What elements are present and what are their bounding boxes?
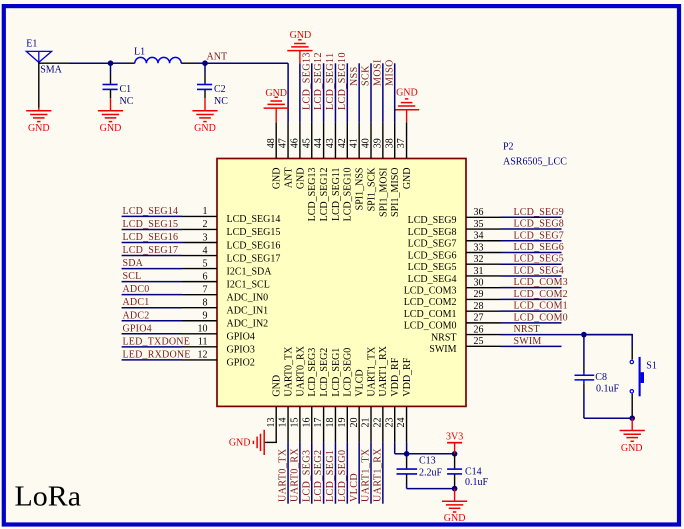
svg-text:9: 9 bbox=[203, 311, 208, 322]
svg-text:GND: GND bbox=[229, 438, 251, 449]
svg-text:UART0_RX: UART0_RX bbox=[290, 448, 301, 502]
svg-text:3: 3 bbox=[203, 232, 208, 243]
svg-text:C2: C2 bbox=[214, 84, 226, 95]
pin 25 SWIM right bbox=[466, 345, 501, 347]
svg-text:LCD_SEG9: LCD_SEG9 bbox=[408, 215, 457, 226]
svg-text:1: 1 bbox=[203, 206, 208, 217]
svg-text:LCD_SEG13: LCD_SEG13 bbox=[301, 52, 312, 110]
svg-text:3V3: 3V3 bbox=[446, 432, 463, 443]
pin 7 ADC0 left bbox=[122, 294, 182, 296]
pin 20 VLCD bottom bbox=[358, 406, 360, 442]
svg-text:SDA: SDA bbox=[123, 258, 144, 269]
svg-text:NRST: NRST bbox=[431, 332, 457, 343]
ground C2 bbox=[192, 110, 217, 112]
svg-text:20: 20 bbox=[349, 418, 360, 428]
svg-text:15: 15 bbox=[290, 418, 301, 428]
svg-text:GPIO4: GPIO4 bbox=[227, 332, 255, 343]
node junction S1 ground bbox=[629, 415, 635, 421]
svg-text:LCD_SEG6: LCD_SEG6 bbox=[408, 250, 457, 261]
pin 8 ADC1 left bbox=[122, 307, 182, 309]
svg-text:LoRa: LoRa bbox=[15, 481, 82, 513]
svg-text:I2C1_SCL: I2C1_SCL bbox=[227, 279, 270, 290]
svg-text:4: 4 bbox=[203, 245, 208, 256]
svg-text:LCD_COM1: LCD_COM1 bbox=[514, 301, 568, 312]
pin 34 LCD_SEG7 right bbox=[466, 240, 501, 242]
svg-text:32: 32 bbox=[474, 254, 484, 265]
svg-text:LCD_SEG14: LCD_SEG14 bbox=[227, 214, 281, 225]
svg-text:33: 33 bbox=[474, 242, 484, 253]
svg-text:14: 14 bbox=[278, 418, 289, 428]
wire S1 to ground bbox=[631, 394, 633, 419]
node junction 3V3 bbox=[452, 451, 458, 457]
svg-text:LCD_COM2: LCD_COM2 bbox=[514, 289, 568, 300]
svg-text:NC: NC bbox=[120, 96, 134, 107]
pin 6 SCL left bbox=[122, 281, 182, 283]
svg-text:GND: GND bbox=[396, 88, 418, 99]
svg-text:ADC_IN0: ADC_IN0 bbox=[227, 292, 269, 303]
svg-text:GND: GND bbox=[444, 513, 466, 524]
svg-text:LCD_SEG16: LCD_SEG16 bbox=[123, 232, 179, 243]
pin 16 LCD_SEG3 bottom bbox=[311, 406, 313, 442]
capacitor C1 (NC) bbox=[110, 63, 112, 73]
svg-text:37: 37 bbox=[396, 138, 407, 148]
wire antenna to C1 node bbox=[39, 62, 69, 64]
pin 33 LCD_SEG6 right bbox=[466, 251, 501, 253]
svg-text:SPI1_MOSI: SPI1_MOSI bbox=[378, 168, 389, 217]
pin 39 SPI1_MOSI top bbox=[382, 123, 384, 159]
svg-text:LCD_SEG17: LCD_SEG17 bbox=[123, 245, 179, 256]
node junction C13 top bbox=[404, 451, 410, 457]
pin 4 LCD_SEG17 left bbox=[122, 255, 182, 257]
svg-text:LCD_SEG5: LCD_SEG5 bbox=[408, 262, 457, 273]
svg-text:28: 28 bbox=[474, 301, 484, 312]
svg-text:17: 17 bbox=[313, 418, 324, 428]
svg-text:UART0_RX: UART0_RX bbox=[295, 345, 306, 396]
svg-text:LCD_SEG7: LCD_SEG7 bbox=[408, 239, 457, 250]
pin 17 LCD_SEG2 bottom bbox=[323, 406, 325, 442]
svg-text:SPI1_SCK: SPI1_SCK bbox=[366, 167, 377, 212]
svg-text:16: 16 bbox=[301, 418, 312, 428]
pin 40 SPI1_SCK top bbox=[370, 123, 372, 159]
svg-text:SWIM: SWIM bbox=[429, 344, 456, 355]
svg-text:44: 44 bbox=[313, 138, 324, 148]
wire ANT node to pin 47 bbox=[205, 62, 288, 64]
svg-text:ADC0: ADC0 bbox=[123, 284, 150, 295]
svg-text:ANT: ANT bbox=[207, 52, 228, 63]
svg-text:26: 26 bbox=[474, 324, 484, 335]
svg-text:LCD_SEG8: LCD_SEG8 bbox=[408, 227, 457, 238]
svg-text:LCD_SEG12: LCD_SEG12 bbox=[313, 52, 324, 110]
svg-text:47: 47 bbox=[278, 138, 289, 148]
svg-text:LCD_SEG9: LCD_SEG9 bbox=[514, 207, 565, 218]
pin 23 VDD_RF bottom bbox=[394, 406, 396, 442]
svg-text:LCD_SEG4: LCD_SEG4 bbox=[514, 265, 565, 276]
pin 46 GND top bbox=[299, 123, 301, 159]
wire to 3V3 node bbox=[407, 453, 455, 455]
wire C8 bottom to S1 bottom bbox=[584, 417, 632, 419]
pin 38 SPI1_MISO top bbox=[394, 123, 396, 159]
svg-text:ADC2: ADC2 bbox=[123, 310, 150, 321]
svg-text:7: 7 bbox=[203, 284, 208, 295]
pin 22 UART1_RX bottom bbox=[382, 406, 384, 442]
svg-text:21: 21 bbox=[361, 418, 372, 428]
svg-text:2.2uF: 2.2uF bbox=[419, 468, 443, 479]
svg-text:ASR6505_LCC: ASR6505_LCC bbox=[503, 157, 567, 168]
svg-text:LCD_SEG14: LCD_SEG14 bbox=[123, 206, 179, 217]
svg-text:LCD_SEG0: LCD_SEG0 bbox=[337, 450, 348, 503]
svg-text:C14: C14 bbox=[465, 467, 482, 478]
svg-text:48: 48 bbox=[266, 138, 277, 148]
svg-text:35: 35 bbox=[474, 219, 484, 230]
wire C1 node to L1 bbox=[111, 62, 127, 64]
svg-text:31: 31 bbox=[474, 266, 484, 277]
ground C1 bbox=[98, 110, 123, 112]
svg-text:LCD_COM0: LCD_COM0 bbox=[404, 321, 457, 332]
IC P2 ASR6505_LCC bbox=[217, 159, 466, 407]
svg-text:10: 10 bbox=[198, 324, 208, 335]
ground E1 bbox=[26, 110, 51, 112]
svg-text:27: 27 bbox=[474, 313, 484, 324]
svg-text:SCL: SCL bbox=[123, 271, 142, 282]
svg-text:11: 11 bbox=[198, 337, 208, 348]
pin 19 LCD_SEG0 bottom bbox=[346, 406, 348, 442]
svg-text:LCD_SEG16: LCD_SEG16 bbox=[227, 240, 281, 251]
svg-text:UART1_TX: UART1_TX bbox=[361, 448, 372, 502]
svg-text:I2C1_SDA: I2C1_SDA bbox=[227, 266, 273, 277]
wire C13 bottom to C14 bottom bbox=[407, 488, 455, 490]
pin 43 LCD_SEG11 top bbox=[334, 123, 336, 159]
pin 12 LED_RXDONE left bbox=[122, 359, 182, 361]
svg-text:GPIO3: GPIO3 bbox=[227, 345, 255, 356]
svg-text:25: 25 bbox=[474, 336, 484, 347]
ground pin 13 (sideways) bbox=[263, 430, 265, 455]
svg-text:LED_TXDONE: LED_TXDONE bbox=[123, 336, 191, 347]
pin 35 LCD_SEG8 right bbox=[466, 228, 501, 230]
svg-text:LED_RXDONE: LED_RXDONE bbox=[123, 349, 191, 360]
pin 1 LCD_SEG14 left bbox=[122, 215, 182, 217]
wire pin 24 down bbox=[406, 443, 408, 454]
svg-text:UART0_TX: UART0_TX bbox=[283, 346, 294, 397]
pin 48 GND top bbox=[275, 123, 277, 159]
svg-text:LCD_SEG11: LCD_SEG11 bbox=[331, 168, 342, 222]
svg-text:LCD_SEG2: LCD_SEG2 bbox=[319, 348, 330, 397]
svg-text:18: 18 bbox=[325, 418, 336, 428]
wire pin 23 elbow bbox=[394, 443, 396, 454]
svg-text:43: 43 bbox=[325, 138, 336, 148]
svg-text:C8: C8 bbox=[595, 372, 607, 383]
svg-text:GND: GND bbox=[295, 168, 306, 190]
pin 21 UART1_TX bottom bbox=[370, 406, 372, 442]
svg-text:LCD_SEG11: LCD_SEG11 bbox=[325, 52, 336, 110]
svg-text:LCD_COM1: LCD_COM1 bbox=[404, 309, 457, 320]
svg-text:46: 46 bbox=[290, 138, 301, 148]
svg-text:LCD_SEG8: LCD_SEG8 bbox=[514, 219, 565, 230]
svg-text:ANT: ANT bbox=[283, 168, 294, 189]
svg-text:39: 39 bbox=[372, 138, 383, 148]
svg-text:C1: C1 bbox=[120, 84, 132, 95]
svg-text:45: 45 bbox=[301, 138, 312, 148]
svg-text:LCD_SEG12: LCD_SEG12 bbox=[319, 168, 330, 222]
svg-text:SMA: SMA bbox=[40, 64, 62, 75]
pin 27 LCD_COM0 right bbox=[466, 322, 501, 324]
svg-text:LCD_SEG3: LCD_SEG3 bbox=[301, 450, 312, 503]
svg-text:LCD_COM0: LCD_COM0 bbox=[514, 312, 568, 323]
capacitor C13 2.2uF bbox=[406, 454, 408, 459]
wire antenna to ground bbox=[38, 62, 40, 107]
svg-text:LCD_SEG17: LCD_SEG17 bbox=[227, 253, 281, 264]
svg-text:P2: P2 bbox=[503, 142, 514, 153]
pin 5 SDA left bbox=[122, 268, 182, 270]
svg-text:40: 40 bbox=[361, 138, 372, 148]
svg-text:LCD_SEG1: LCD_SEG1 bbox=[331, 348, 342, 397]
pin 45 LCD_SEG13 top bbox=[311, 123, 313, 159]
pin 11 LED_TXDONE left bbox=[122, 346, 182, 348]
svg-text:VLCD: VLCD bbox=[355, 369, 366, 396]
svg-text:19: 19 bbox=[337, 418, 348, 428]
svg-text:GND: GND bbox=[100, 123, 122, 134]
svg-text:0.1uF: 0.1uF bbox=[596, 383, 620, 394]
pin 37 GND top bbox=[406, 123, 408, 159]
svg-text:41: 41 bbox=[349, 138, 360, 148]
svg-text:LCD_COM3: LCD_COM3 bbox=[514, 277, 568, 288]
svg-text:SCK: SCK bbox=[361, 65, 372, 86]
capacitor C8 0.1uF bbox=[583, 372, 585, 375]
capacitor C14 0.1uF bbox=[454, 454, 456, 469]
svg-text:22: 22 bbox=[372, 418, 383, 428]
capacitor C2 (NC) bbox=[204, 63, 206, 73]
inductor L1 bbox=[135, 57, 181, 63]
svg-text:LCD_SEG7: LCD_SEG7 bbox=[514, 230, 565, 241]
svg-text:L1: L1 bbox=[134, 47, 145, 58]
pin 14 UART0_TX bottom bbox=[287, 406, 289, 442]
node junction at C1 bbox=[108, 60, 114, 66]
svg-text:LCD_SEG6: LCD_SEG6 bbox=[514, 242, 565, 253]
wire NRST to S1 bbox=[584, 334, 632, 336]
pin 28 LCD_COM1 right bbox=[466, 310, 501, 312]
svg-text:LCD_SEG2: LCD_SEG2 bbox=[313, 450, 324, 503]
pin 30 LCD_COM3 right bbox=[466, 287, 501, 289]
pin 32 LCD_SEG5 right bbox=[466, 263, 501, 265]
pin 24 VDD_RF bottom bbox=[406, 406, 408, 442]
svg-text:42: 42 bbox=[337, 138, 348, 148]
svg-text:GPIO2: GPIO2 bbox=[227, 358, 255, 369]
pin 29 LCD_COM2 right bbox=[466, 298, 501, 300]
node ANT bbox=[202, 60, 208, 66]
svg-text:23: 23 bbox=[384, 418, 395, 428]
svg-text:29: 29 bbox=[474, 289, 484, 300]
svg-text:GND: GND bbox=[402, 168, 413, 190]
svg-text:VDD_RF: VDD_RF bbox=[390, 357, 401, 396]
pin 2 LCD_SEG15 left bbox=[122, 228, 182, 230]
svg-text:VDD_RF: VDD_RF bbox=[402, 357, 413, 396]
pin 3 LCD_SEG16 left bbox=[122, 241, 182, 243]
svg-text:34: 34 bbox=[474, 231, 484, 242]
svg-text:LCD_SEG3: LCD_SEG3 bbox=[307, 348, 318, 397]
pin 13 GND bottom bbox=[275, 406, 277, 442]
svg-text:LCD_SEG13: LCD_SEG13 bbox=[307, 168, 318, 222]
svg-text:NC: NC bbox=[214, 96, 228, 107]
wire NRST down to C8 bbox=[583, 335, 585, 365]
svg-text:GPIO4: GPIO4 bbox=[123, 323, 152, 334]
svg-text:LCD_SEG5: LCD_SEG5 bbox=[514, 254, 565, 265]
svg-text:LCD_COM2: LCD_COM2 bbox=[404, 297, 457, 308]
svg-text:C13: C13 bbox=[419, 456, 436, 467]
svg-text:ADC1: ADC1 bbox=[123, 297, 150, 308]
pin 9 ADC2 left bbox=[122, 320, 182, 322]
svg-text:E1: E1 bbox=[26, 39, 37, 50]
svg-text:GND: GND bbox=[28, 123, 50, 134]
svg-text:S1: S1 bbox=[646, 361, 657, 372]
svg-text:LCD_SEG0: LCD_SEG0 bbox=[343, 348, 354, 397]
svg-text:MISO: MISO bbox=[384, 59, 395, 86]
svg-text:SPI1_MISO: SPI1_MISO bbox=[390, 168, 401, 217]
node junction NRST bbox=[581, 332, 587, 338]
svg-text:38: 38 bbox=[384, 138, 395, 148]
svg-text:30: 30 bbox=[474, 277, 484, 288]
pin 36 LCD_SEG9 right bbox=[466, 216, 501, 218]
svg-text:24: 24 bbox=[396, 418, 407, 428]
svg-text:12: 12 bbox=[198, 350, 208, 361]
svg-text:SPI1_NSS: SPI1_NSS bbox=[355, 168, 366, 211]
svg-text:LCD_SEG15: LCD_SEG15 bbox=[227, 227, 281, 238]
svg-text:8: 8 bbox=[203, 298, 208, 309]
power 3V3 bbox=[454, 443, 456, 454]
pin 10 GPIO4 left bbox=[122, 333, 182, 335]
svg-text:UART1_RX: UART1_RX bbox=[378, 345, 389, 396]
pin 18 LCD_SEG1 bottom bbox=[334, 406, 336, 442]
svg-text:LCD_COM3: LCD_COM3 bbox=[404, 285, 457, 296]
svg-text:UART1_TX: UART1_TX bbox=[366, 346, 377, 397]
svg-text:ADC_IN1: ADC_IN1 bbox=[227, 306, 269, 317]
ground C14 bbox=[454, 489, 456, 502]
svg-text:GND: GND bbox=[272, 375, 283, 397]
svg-text:0.1uF: 0.1uF bbox=[465, 477, 489, 488]
svg-text:GND: GND bbox=[621, 443, 643, 454]
pin 47 ANT top bbox=[287, 123, 289, 159]
pin 15 UART0_RX bottom bbox=[299, 406, 301, 442]
svg-text:ADC_IN2: ADC_IN2 bbox=[227, 319, 269, 330]
svg-text:6: 6 bbox=[203, 271, 208, 282]
svg-text:GND: GND bbox=[194, 123, 216, 134]
pin 44 LCD_SEG12 top bbox=[323, 123, 325, 159]
svg-text:UART0_TX: UART0_TX bbox=[278, 448, 289, 502]
svg-text:LCD_SEG15: LCD_SEG15 bbox=[123, 219, 179, 230]
svg-text:LCD_SEG4: LCD_SEG4 bbox=[408, 274, 457, 285]
svg-text:SWIM: SWIM bbox=[514, 336, 542, 347]
svg-text:5: 5 bbox=[203, 258, 208, 269]
svg-text:MOSI: MOSI bbox=[372, 59, 383, 86]
ground S1 bbox=[631, 418, 633, 430]
antenna E1 SMA bbox=[26, 51, 51, 62]
svg-text:LCD_SEG1: LCD_SEG1 bbox=[325, 450, 336, 503]
svg-text:13: 13 bbox=[266, 418, 277, 428]
svg-text:36: 36 bbox=[474, 207, 484, 218]
wire pin 13 to ground bbox=[275, 441, 277, 443]
svg-text:VLCD: VLCD bbox=[349, 473, 360, 502]
svg-text:GND: GND bbox=[272, 168, 283, 190]
svg-text:LCD_SEG10: LCD_SEG10 bbox=[337, 52, 348, 110]
pin 31 LCD_SEG4 right bbox=[466, 275, 501, 277]
switch S1 bbox=[631, 348, 633, 360]
pin 42 LCD_SEG10 top bbox=[346, 123, 348, 159]
pin 41 SPI1_NSS top bbox=[358, 123, 360, 159]
svg-text:UART1_RX: UART1_RX bbox=[372, 448, 383, 502]
wire L1 to ANT node bbox=[181, 62, 194, 64]
svg-text:2: 2 bbox=[203, 219, 208, 230]
node junction C14 bottom bbox=[452, 486, 458, 492]
svg-text:LCD_SEG10: LCD_SEG10 bbox=[343, 168, 354, 222]
svg-text:NSS: NSS bbox=[349, 66, 360, 86]
pin 26 NRST right bbox=[466, 334, 501, 336]
svg-text:NRST: NRST bbox=[514, 324, 540, 335]
